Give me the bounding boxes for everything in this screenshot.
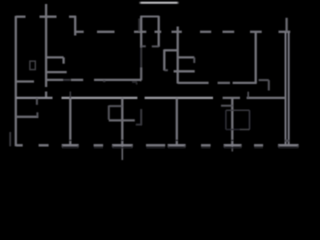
module box dim left	[225, 110, 227, 129]
wire branch x=255	[255, 32, 257, 83]
wire lead Q1	[45, 92, 47, 99]
wire dim jog	[136, 124, 142, 126]
wire tick node	[141, 45, 146, 47]
ground bar 3	[168, 144, 186, 147]
wire selected white net	[139, 2, 179, 4]
wire drop x122	[121, 98, 123, 144]
ground bar shadows	[62, 147, 298, 149]
wire link	[152, 45, 159, 47]
wire vertical input branch	[45, 4, 47, 87]
resistor dim vertical lower	[140, 109, 142, 125]
wire drop x70	[69, 98, 71, 144]
wire rail2 segment e	[172, 31, 182, 33]
module box bottom left dim	[226, 129, 240, 131]
ground bar 4	[224, 144, 242, 147]
wire bottom corner left	[16, 144, 23, 147]
wire branch left low	[16, 116, 38, 118]
wire rail2 segment c	[134, 31, 146, 33]
wire corner up	[140, 79, 141, 81]
wire mid rail seg3	[223, 97, 240, 99]
junction blob double bus	[285, 140, 290, 142]
wire corner branch	[74, 16, 76, 36]
module box dim top	[226, 109, 250, 111]
wire double bus left	[285, 33, 287, 145]
node tick dim	[132, 81, 137, 83]
wire double bus right	[288, 33, 290, 145]
wire mid line seg2	[178, 82, 209, 84]
module box dim right	[249, 110, 251, 129]
capacitor plate dim parallel	[138, 19, 140, 32]
wire base line dim	[63, 79, 70, 81]
wire base line seg	[71, 79, 83, 81]
wire left bus vertical	[15, 16, 17, 146]
wire rail2 segment g	[223, 31, 235, 33]
wire bottom dash 5	[254, 144, 263, 147]
ground bar 1	[62, 144, 79, 147]
wire bend down	[108, 106, 110, 120]
bar end ticks	[62, 145, 298, 147]
wire bottom dash 2	[94, 144, 104, 147]
wire down stub	[268, 80, 270, 90]
wire box right edge	[193, 57, 195, 63]
wire gate stub 2	[221, 105, 233, 107]
wire corner to mid line	[233, 82, 257, 84]
ground bar 2	[112, 144, 133, 147]
wire lower lead R3	[140, 68, 142, 81]
wire vertical C1 right	[158, 16, 160, 47]
wire up tick	[36, 112, 38, 117]
wire bottom dash 3	[146, 144, 165, 147]
wire rail2 segment h	[250, 31, 262, 33]
wire cross line x122	[109, 119, 135, 121]
capacitor C1 plates	[141, 16, 159, 18]
wire drop x232	[231, 98, 233, 144]
capacitor lead dim left edge	[9, 132, 11, 146]
wire mid rail seg4	[247, 97, 286, 99]
wire tick into 177	[168, 49, 178, 51]
wire L branch	[163, 49, 165, 70]
resistor R1 box	[30, 61, 35, 70]
resistor R3 body dim vertical	[140, 48, 142, 68]
wire base line long	[94, 79, 141, 81]
wire branch x=177.5	[177, 27, 179, 84]
wire rail2 segment a	[75, 31, 84, 33]
wire top rail VCC segment 1	[16, 16, 26, 18]
wire crossing segment	[174, 70, 195, 72]
wire rail2 segment f	[200, 31, 211, 33]
wire gate stub 1	[109, 105, 123, 107]
wire stub above rail x248	[247, 92, 249, 98]
wire stub above rail x70	[69, 92, 71, 99]
wire drop x176	[176, 98, 178, 144]
wire rail2 segment i	[279, 31, 291, 33]
resistor R2 body gap / rail2 segment b	[97, 31, 115, 33]
capacitor C2 bottom	[46, 71, 67, 73]
wire branch to box	[178, 56, 195, 58]
lead notches above bars	[69, 140, 233, 142]
wire below bar x232	[231, 146, 233, 151]
wire left sub line	[16, 80, 34, 82]
wire bottom dash 4	[201, 144, 211, 147]
wire vertical C1 left	[140, 16, 142, 48]
wire mid line seg	[218, 82, 230, 84]
wire cap edge	[62, 57, 64, 63]
wire top rail VCC segment 2	[40, 16, 57, 18]
wire stub below rail98 x37	[36, 98, 38, 105]
wire right top stub	[285, 18, 287, 32]
wire stub above node	[259, 79, 269, 81]
wire below bar x122	[121, 146, 123, 160]
wire top rail VCC segment 3	[69, 16, 76, 18]
wire mid rail bright2	[145, 97, 213, 99]
ground bar 5	[278, 144, 299, 147]
wire rail2 segment d	[155, 31, 162, 33]
node tick dim v	[136, 82, 138, 84]
wire mid rail GND left	[16, 97, 53, 99]
wire mid rail bright	[62, 97, 138, 99]
junction dot	[103, 80, 105, 82]
capacitor C2 top	[46, 56, 64, 58]
wire base line left	[46, 79, 63, 81]
module box bottom right	[240, 129, 250, 131]
wire tick right of L	[164, 69, 168, 71]
wire bottom dash 1	[39, 144, 49, 147]
